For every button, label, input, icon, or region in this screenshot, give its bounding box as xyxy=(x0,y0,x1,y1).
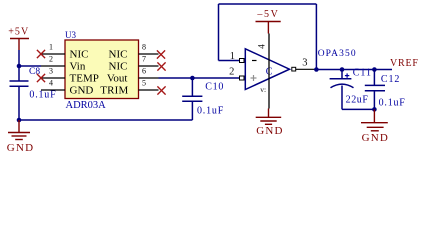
svg-text:VREF: VREF xyxy=(390,58,419,69)
capacitor C10 xyxy=(182,78,224,120)
svg-text:8: 8 xyxy=(142,43,146,52)
svg-text:Vout: Vout xyxy=(107,73,128,85)
capacitor C11 polarized xyxy=(330,68,372,110)
svg-text:C12: C12 xyxy=(381,74,400,85)
svg-text:2: 2 xyxy=(49,55,53,64)
pin 6 xyxy=(139,77,159,79)
power +5V xyxy=(8,27,29,50)
svg-text:GND: GND xyxy=(362,132,389,144)
wire from +5V down to junction xyxy=(18,50,20,81)
svg-text:NIC: NIC xyxy=(109,49,128,61)
svg-text:–5V: –5V xyxy=(256,9,279,20)
svg-text:C10: C10 xyxy=(205,82,224,93)
svg-text:0.1uF: 0.1uF xyxy=(29,90,56,101)
node C11 junction xyxy=(340,67,345,72)
supply pin line through opamp xyxy=(268,34,270,109)
pin 8 xyxy=(139,53,159,55)
svg-text:C11: C11 xyxy=(353,68,372,79)
pin 1 xyxy=(41,53,65,55)
no-ERC X pin5 xyxy=(157,86,165,94)
svg-text:GND: GND xyxy=(70,85,94,97)
svg-text:7: 7 xyxy=(142,55,146,64)
node C10 junction xyxy=(190,76,195,81)
svg-text:GND: GND xyxy=(256,125,283,137)
svg-text:5: 5 xyxy=(142,79,146,88)
wire right ground bus xyxy=(342,108,374,110)
svg-text:ADR03A: ADR03A xyxy=(66,100,107,111)
op-amp OPA350 xyxy=(229,44,307,94)
wire feedback top xyxy=(219,3,317,5)
svg-text:0.1uF: 0.1uF xyxy=(379,98,406,109)
svg-text:3: 3 xyxy=(302,58,307,69)
svg-text:+5V: +5V xyxy=(8,27,29,38)
IC U3 ADR03A voltage reference xyxy=(65,30,139,111)
node bottom-left junction xyxy=(17,118,22,123)
svg-text:NIC: NIC xyxy=(109,61,128,73)
ground left xyxy=(7,120,34,154)
svg-text:TRIM: TRIM xyxy=(100,85,128,97)
svg-text:OPA350: OPA350 xyxy=(318,49,357,59)
wire feedback right vertical xyxy=(315,4,317,70)
svg-text:0.1uF: 0.1uF xyxy=(197,106,224,117)
no-ERC X pin3 xyxy=(37,74,45,82)
ground right xyxy=(361,109,389,144)
wire opamp output xyxy=(296,68,317,70)
pin 2 xyxy=(41,65,65,67)
svg-text:NIC: NIC xyxy=(70,49,89,61)
wire to Vin pin2 xyxy=(19,65,41,67)
no-ERC X pin8 xyxy=(157,50,165,58)
pin 7 xyxy=(139,65,159,67)
pin 4 xyxy=(41,89,65,91)
svg-text:U3: U3 xyxy=(65,30,76,40)
svg-text:2: 2 xyxy=(229,67,234,78)
capacitor C12 xyxy=(365,70,406,110)
pin 5 xyxy=(139,89,159,91)
wire feedback left vertical xyxy=(218,4,220,61)
no-ERC X pin1 xyxy=(37,50,45,58)
svg-text:TEMP: TEMP xyxy=(70,73,99,85)
pin 3 xyxy=(41,77,65,79)
svg-text:4: 4 xyxy=(257,44,267,49)
ground opamp xyxy=(256,109,284,138)
svg-text:4: 4 xyxy=(49,79,53,88)
svg-text:GND: GND xyxy=(7,142,34,154)
svg-text:Vin: Vin xyxy=(70,61,86,73)
svg-text:1: 1 xyxy=(49,43,53,52)
wire output net to VREF xyxy=(316,69,392,71)
wire ground bus left xyxy=(19,119,192,121)
wire Vout net xyxy=(159,77,241,79)
node +5V/C8 junction xyxy=(17,64,22,69)
svg-text:6: 6 xyxy=(142,67,146,76)
node feedback/output junction xyxy=(314,67,319,72)
power -5V xyxy=(256,9,281,33)
no-ERC X pin7 xyxy=(157,62,165,70)
capacitor C8 xyxy=(10,67,57,100)
wire to opamp in- xyxy=(219,60,240,62)
wire C8 bottom xyxy=(18,86,20,120)
svg-text:22uF: 22uF xyxy=(346,95,369,106)
svg-text:v:: v: xyxy=(260,85,266,94)
svg-text:3: 3 xyxy=(49,67,53,76)
node C12 junction xyxy=(372,67,377,72)
svg-text:1: 1 xyxy=(230,51,235,62)
node right ground junction xyxy=(372,107,377,112)
